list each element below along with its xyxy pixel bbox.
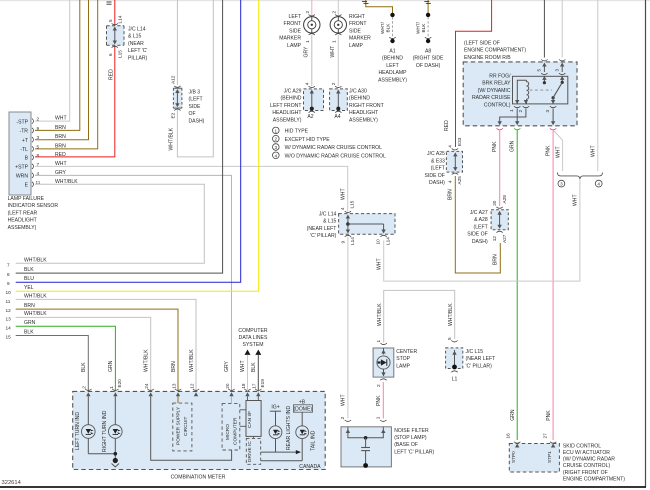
meter wire labels vertical	[81, 349, 257, 372]
svg-text:CANADA: CANADA	[299, 464, 321, 470]
svg-text:12: 12	[6, 308, 12, 313]
svg-text:-TL: -TL	[20, 147, 28, 153]
svg-text:'C' PILLAR): 'C' PILLAR)	[310, 233, 337, 239]
svg-text:B: B	[25, 156, 29, 162]
skid control title	[563, 443, 625, 482]
svg-text:322614: 322614	[2, 480, 22, 486]
svg-text:9: 9	[7, 281, 10, 286]
svg-text:WHT/BLK: WHT/BLK	[143, 349, 149, 372]
svg-text:(BEHIND: (BEHIND	[382, 56, 403, 62]
wire WHT/BLK pin11 E to row7	[16, 184, 205, 263]
svg-text:L14: L14	[350, 237, 355, 245]
J/B 3 title	[189, 90, 205, 125]
junction block J/B 3	[171, 75, 182, 118]
svg-text:A25: A25	[457, 176, 462, 185]
node A1	[380, 13, 396, 44]
svg-text:PNK: PNK	[492, 141, 498, 152]
wire BRN stub A8	[427, 0, 429, 13]
wire BLK into relay contact 1	[543, 0, 545, 58]
svg-text:WHT/BLK: WHT/BLK	[169, 127, 175, 150]
row 14 GRN	[6, 320, 116, 391]
svg-text:ECU W/ ACTUATOR: ECU W/ ACTUATOR	[563, 450, 610, 456]
relay coil	[527, 80, 529, 100]
svg-text:J/C L15: J/C L15	[466, 349, 484, 355]
row 15 BLK	[6, 329, 89, 391]
J/C L15 title	[466, 349, 496, 369]
wire relay coil pin2 jog	[500, 109, 526, 124]
svg-text:GRN: GRN	[510, 140, 516, 152]
svg-text:A2: A2	[307, 114, 313, 120]
svg-text:J/C A29: J/C A29	[284, 89, 302, 95]
wire RED top right	[456, 0, 492, 147]
svg-text:7: 7	[7, 263, 10, 268]
J/C A29 title	[270, 89, 302, 124]
wire PNK to left marker lamp	[311, 0, 313, 17]
svg-text:(LEFT REAR: (LEFT REAR	[8, 210, 38, 216]
svg-text:4: 4	[275, 153, 278, 158]
svg-text:(DOME): (DOME)	[293, 407, 312, 413]
svg-text:GRN: GRN	[24, 320, 36, 326]
svg-text:4: 4	[340, 207, 345, 210]
svg-text:4: 4	[448, 180, 453, 183]
left front side marker lamp	[279, 11, 320, 49]
wire WHT to right marker lamp	[337, 0, 339, 17]
svg-text:1: 1	[331, 40, 336, 43]
wire BRN pin9 -TR	[35, 0, 80, 130]
row 9 BLU	[7, 0, 241, 286]
wire WHT pin2 -STP	[35, 0, 70, 121]
svg-text:A27: A27	[502, 234, 507, 243]
svg-text:WHT/BLK: WHT/BLK	[24, 258, 47, 264]
wire GRY pin4 WRN	[35, 175, 232, 391]
svg-text:& A28: & A28	[474, 217, 488, 223]
svg-text:FRONT: FRONT	[283, 21, 301, 27]
svg-text:BLK: BLK	[24, 267, 34, 273]
svg-text:20: 20	[225, 383, 230, 389]
svg-text:YEL: YEL	[24, 285, 34, 291]
svg-text:LEFT: LEFT	[289, 14, 301, 20]
svg-text:+B: +B	[299, 399, 306, 405]
svg-text:-TR: -TR	[20, 129, 29, 135]
junction connector J/C A27 A28	[491, 195, 508, 243]
svg-text:ENGINE ROOM R/B: ENGINE ROOM R/B	[464, 55, 511, 61]
svg-text:17: 17	[252, 383, 257, 389]
svg-text:E: E	[25, 183, 29, 189]
micro computer box	[222, 396, 240, 450]
svg-text:2: 2	[275, 137, 278, 142]
svg-text:27: 27	[543, 433, 548, 439]
svg-text:PNK: PNK	[546, 145, 552, 156]
svg-text:WHT/BLK: WHT/BLK	[448, 303, 454, 326]
svg-text:MARKER: MARKER	[279, 36, 301, 42]
svg-text:WHT: WHT	[590, 145, 596, 157]
wire WHT/BLK from top through J/B 3	[176, 0, 178, 85]
svg-text:LAMP: LAMP	[349, 43, 363, 49]
svg-text:3: 3	[545, 110, 550, 113]
svg-text:E33: E33	[457, 137, 462, 146]
wire GRY lamp to J/C A29	[311, 35, 313, 86]
svg-text:2: 2	[331, 82, 336, 85]
RR FOG/BRK relay title	[472, 74, 511, 109]
note circle 4	[595, 180, 602, 187]
svg-text:BRK RELAY: BRK RELAY	[482, 81, 511, 87]
noise filter box	[340, 416, 391, 468]
svg-text:RED: RED	[109, 69, 115, 80]
svg-text:BRN: BRN	[448, 189, 454, 200]
svg-text:4: 4	[597, 182, 600, 187]
svg-text:W/ DYNAMIC RADAR CRUISE CONTRO: W/ DYNAMIC RADAR CRUISE CONTROL	[285, 145, 383, 151]
svg-text:J/C L14: J/C L14	[319, 212, 337, 218]
svg-text:& L15: & L15	[128, 34, 141, 40]
svg-text:(LEFT SIDE OF: (LEFT SIDE OF	[464, 41, 500, 47]
svg-text:RIGHT: RIGHT	[349, 14, 365, 20]
svg-text:WHT: WHT	[572, 194, 578, 206]
svg-text:CAN I/F: CAN I/F	[247, 411, 253, 428]
svg-text:J/C A25: J/C A25	[427, 151, 445, 157]
power supply circuit box	[173, 396, 192, 451]
svg-text:CONTROL): CONTROL)	[484, 102, 511, 108]
svg-text:WHT/BLK: WHT/BLK	[377, 303, 383, 326]
wire WHT into relay contact 2	[561, 0, 563, 58]
svg-text:CRUISE CONTROL): CRUISE CONTROL)	[563, 463, 611, 469]
junction connector J/C L15	[446, 337, 463, 383]
tail indicator	[261, 399, 321, 470]
wire PNK stop lamp to noise filter	[382, 382, 384, 419]
sensor pin numbers	[36, 117, 41, 185]
page bottom border	[0, 486, 646, 488]
relay RR FOG/BRK body	[513, 76, 568, 104]
svg-text:3: 3	[275, 145, 278, 150]
svg-text:10: 10	[6, 290, 12, 295]
svg-text:BLK: BLK	[385, 23, 390, 33]
svg-text:J/B 3: J/B 3	[189, 90, 201, 96]
row 8 BLK	[7, 0, 223, 277]
svg-text:E2: E2	[171, 112, 176, 118]
meter pin numbers	[82, 379, 265, 389]
svg-text:HEADLIGHT: HEADLIGHT	[349, 110, 378, 116]
svg-text:BRN: BRN	[24, 303, 35, 309]
svg-text:LEFT 'C': LEFT 'C'	[128, 48, 147, 54]
relay contacts	[543, 76, 545, 82]
svg-text:1: 1	[275, 128, 278, 133]
svg-text:(BEHIND: (BEHIND	[349, 96, 370, 102]
svg-text:RR FOG/: RR FOG/	[489, 74, 511, 80]
svg-text:13: 13	[6, 316, 12, 321]
J/C A30 title	[349, 89, 384, 124]
note circle 3	[558, 180, 565, 187]
svg-text:RED: RED	[444, 120, 450, 131]
svg-text:WHT: WHT	[330, 46, 336, 58]
relay pins at R/B top edge	[537, 60, 566, 80]
svg-text:WHT/: WHT/	[380, 21, 385, 34]
svg-text:LEFT 'C' PILLAR): LEFT 'C' PILLAR)	[394, 449, 434, 455]
svg-text:24: 24	[144, 383, 149, 389]
svg-text:BRN: BRN	[171, 361, 177, 372]
svg-text:REAR LIGHTS IND: REAR LIGHTS IND	[286, 406, 292, 450]
wire BRN pin3 +T	[35, 0, 89, 140]
right turn indicator	[102, 396, 122, 458]
svg-text:RADAR CRUISE: RADAR CRUISE	[472, 95, 511, 101]
svg-text:1: 1	[109, 386, 114, 389]
svg-text:L15: L15	[118, 50, 123, 58]
svg-text:ASSEMBLY): ASSEMBLY)	[273, 117, 302, 123]
svg-text:PNK: PNK	[546, 410, 552, 421]
row 13 WHT/BLK	[6, 311, 151, 391]
svg-text:(BEHIND: (BEHIND	[281, 96, 302, 102]
ground inside meter	[112, 458, 120, 467]
wire WHT lamp to J/C A30	[337, 35, 339, 86]
svg-text:BRN: BRN	[493, 254, 499, 265]
svg-text:WHT/BLK: WHT/BLK	[24, 294, 47, 300]
svg-text:J/C L14: J/C L14	[128, 27, 146, 33]
svg-text:WHT: WHT	[377, 258, 383, 270]
svg-text:BLK: BLK	[24, 329, 34, 335]
svg-text:CIRCUIT: CIRCUIT	[183, 416, 189, 436]
wire WHT JC L14 to noise filter	[347, 237, 349, 419]
svg-text:5: 5	[447, 337, 452, 340]
svg-text:(BASE OF: (BASE OF	[394, 442, 418, 448]
svg-text:WHT: WHT	[240, 360, 246, 372]
svg-text:WHT: WHT	[341, 188, 347, 200]
svg-text:SIDE: SIDE	[349, 28, 361, 34]
combination meter box	[73, 391, 326, 480]
svg-text:2: 2	[340, 416, 345, 419]
svg-text:BLU: BLU	[24, 276, 34, 282]
svg-text:(NEAR LEFT: (NEAR LEFT	[307, 226, 337, 232]
svg-text:A28: A28	[502, 195, 507, 204]
svg-text:& L15: & L15	[323, 219, 336, 225]
svg-text:OF DASH): OF DASH)	[416, 63, 441, 69]
svg-text:COMBINATION METER: COMBINATION METER	[171, 474, 226, 480]
A8 title	[413, 49, 444, 69]
svg-text:1: 1	[305, 40, 310, 43]
svg-text:WHT/BLK: WHT/BLK	[24, 311, 47, 317]
node A8	[415, 13, 431, 44]
row 12 BRN	[6, 303, 179, 392]
svg-text:HID TYPE: HID TYPE	[285, 129, 309, 135]
svg-text:L1: L1	[452, 377, 458, 383]
J/C A25 E33 title	[425, 151, 446, 186]
svg-text:WRN: WRN	[16, 174, 28, 180]
svg-text:5: 5	[108, 19, 113, 22]
svg-text:DRIVE IC: DRIVE IC	[247, 441, 253, 462]
row 11 WHT/BLK	[6, 294, 197, 392]
svg-text:4: 4	[448, 145, 453, 148]
svg-text:A4: A4	[334, 114, 340, 120]
svg-text:HEADLAMP: HEADLAMP	[378, 70, 407, 76]
wire BRN pin5 -TL	[35, 0, 98, 149]
svg-text:WHT/BLK: WHT/BLK	[189, 349, 195, 372]
svg-text:DASH): DASH)	[429, 180, 445, 186]
svg-text:18: 18	[241, 383, 246, 389]
wire WHT merged to J/C L14 L15	[384, 179, 580, 281]
rear lights indicator	[261, 404, 301, 454]
svg-text:WHT: WHT	[340, 394, 346, 406]
svg-text:LEFT FRONT: LEFT FRONT	[270, 103, 301, 109]
CAN I/F box	[240, 396, 261, 436]
svg-text:(LEFT: (LEFT	[189, 97, 203, 103]
svg-text:LEFT TURN IND: LEFT TURN IND	[75, 412, 81, 450]
wire relay common pin3	[552, 109, 554, 124]
svg-text:W/O DYNAMIC RADAR CRUISE CONTR: W/O DYNAMIC RADAR CRUISE CONTROL	[285, 154, 386, 160]
svg-text:GRY: GRY	[224, 360, 230, 372]
svg-text:(NEAR LEFT: (NEAR LEFT	[466, 356, 496, 362]
svg-text:SKID CONTROL: SKID CONTROL	[563, 443, 601, 449]
wire WHT/BLK to stop lamp and J/C L15	[384, 290, 455, 342]
svg-text:1: 1	[376, 416, 381, 419]
engine room R/B label	[464, 41, 526, 61]
brace merging WHT wires	[557, 173, 602, 180]
svg-text:DATA LINES: DATA LINES	[239, 335, 268, 341]
svg-text:(STOP LAMP): (STOP LAMP)	[394, 435, 427, 441]
junction connector J/C A30	[330, 82, 348, 120]
svg-text:FRONT: FRONT	[349, 21, 367, 27]
svg-text:RIGHT TURN IND: RIGHT TURN IND	[102, 410, 108, 452]
svg-text:2: 2	[376, 384, 381, 387]
skid control ECU box	[506, 433, 560, 472]
svg-text:DASH): DASH)	[189, 118, 205, 124]
relay blade	[552, 96, 555, 99]
svg-text:STP0: STP0	[511, 451, 516, 463]
svg-text:WHT: WHT	[555, 146, 561, 158]
svg-text:GRN: GRN	[108, 360, 114, 372]
row 7	[7, 258, 47, 268]
svg-text:IG+: IG+	[271, 404, 279, 410]
svg-text:BLK: BLK	[251, 362, 257, 372]
svg-text:16: 16	[506, 433, 511, 439]
wire PNK relay to J/C A28	[499, 130, 501, 207]
wire BRN A25 to A27	[455, 176, 500, 273]
relay pins at body bottom	[509, 100, 556, 113]
page right border	[645, 0, 647, 487]
svg-text:(RIGHT FRONT OF: (RIGHT FRONT OF	[563, 470, 608, 476]
center stop lamp	[373, 340, 394, 388]
svg-text:11: 11	[6, 299, 11, 304]
wire BRN stub A1	[366, 0, 393, 13]
svg-text:LAMP: LAMP	[396, 363, 410, 369]
svg-text:ENGINE COMPARTMENT): ENGINE COMPARTMENT)	[464, 48, 526, 54]
R/B bottom edge pin arrows	[497, 121, 557, 129]
right front side marker lamp	[330, 11, 371, 49]
svg-text:RIGHT FRONT: RIGHT FRONT	[349, 103, 384, 109]
svg-text:BLK: BLK	[81, 362, 87, 372]
svg-text:COMPUTER: COMPUTER	[232, 417, 238, 445]
svg-text:14: 14	[6, 325, 12, 330]
svg-text:SIDE OF: SIDE OF	[425, 173, 445, 179]
svg-text:MARKER: MARKER	[349, 36, 371, 42]
junction connector J/C A25 E33	[446, 137, 462, 184]
svg-text:(RIGHT SIDE: (RIGHT SIDE	[413, 56, 444, 62]
wire RED pin8 B	[35, 0, 115, 157]
svg-text:GRN: GRN	[510, 409, 516, 421]
junction connector J/C L14 L15 upper	[107, 15, 125, 58]
engine room R/B dashed box	[463, 62, 577, 126]
legend notes	[273, 127, 387, 159]
computer data lines system	[238, 328, 268, 392]
svg-text:9: 9	[341, 241, 346, 244]
svg-text:-STP: -STP	[16, 119, 28, 125]
svg-text:(W/ DYNAMIC: (W/ DYNAMIC	[478, 88, 511, 94]
svg-text:5: 5	[537, 69, 542, 72]
svg-text:BLK: BLK	[421, 23, 426, 33]
svg-text:2: 2	[518, 110, 523, 113]
lamp failure indicator sensor box	[9, 112, 31, 195]
svg-text:HEADLIGHT: HEADLIGHT	[272, 110, 301, 116]
svg-text:E20: E20	[117, 379, 122, 388]
faint top page edge	[0, 0, 650, 2]
wire pin24 to micro computer	[151, 396, 232, 460]
wire GRN relay to skid control STP0	[516, 130, 518, 441]
svg-text:STOP: STOP	[396, 356, 410, 362]
svg-text:'C' PILLAR): 'C' PILLAR)	[466, 363, 493, 369]
svg-text:A8: A8	[425, 49, 431, 55]
svg-text:13: 13	[171, 383, 176, 389]
meter pin arcs and arrows	[85, 389, 261, 396]
svg-text:ENGINE COMPARTMENT): ENGINE COMPARTMENT)	[563, 476, 625, 482]
svg-text:1: 1	[376, 340, 381, 343]
svg-text:4: 4	[305, 82, 310, 85]
drive IC box	[246, 436, 260, 464]
svg-text:J/C A30: J/C A30	[349, 89, 367, 95]
center stop lamp title	[396, 349, 417, 369]
lamp failure sensor title	[8, 196, 59, 231]
svg-text:PNK: PNK	[376, 395, 382, 406]
svg-text:COMPUTER: COMPUTER	[238, 328, 267, 334]
svg-text:2: 2	[305, 11, 310, 14]
svg-text:WHT/: WHT/	[415, 21, 420, 34]
svg-text:ASSEMBLY): ASSEMBLY)	[349, 117, 378, 123]
wire PNK relay to skid control STP1	[552, 130, 554, 441]
sensor wire color labels	[55, 116, 78, 185]
svg-text:2: 2	[331, 11, 336, 14]
wire WHT branch 3 from relay pin	[554, 131, 563, 172]
svg-text:PILLAR): PILLAR)	[128, 55, 148, 61]
relay linkage dashed	[530, 89, 553, 91]
svg-text:ASSEMBLY): ASSEMBLY)	[8, 225, 37, 231]
svg-text:TAIL IND: TAIL IND	[311, 430, 317, 451]
A1 title	[378, 49, 407, 84]
svg-text:SIDE OF: SIDE OF	[467, 232, 487, 238]
svg-text:(NEAR: (NEAR	[128, 41, 144, 47]
red top tick	[107, 2, 112, 4]
svg-text:(W/ DYNAMIC RADAR: (W/ DYNAMIC RADAR	[563, 457, 615, 463]
svg-text:20: 20	[492, 200, 497, 206]
svg-text:L14: L14	[118, 15, 123, 23]
svg-text:INDICATOR SENSOR: INDICATOR SENSOR	[8, 203, 59, 209]
svg-text:EXCEPT HID TYPE: EXCEPT HID TYPE	[285, 137, 331, 143]
svg-text:15: 15	[6, 335, 12, 340]
svg-text:DASH): DASH)	[472, 239, 488, 245]
svg-text:SIDE: SIDE	[189, 104, 201, 110]
svg-text:L15: L15	[350, 200, 355, 208]
svg-text:A1: A1	[389, 49, 395, 55]
svg-text:ASSEMBLY): ASSEMBLY)	[378, 77, 407, 83]
svg-text:3: 3	[560, 182, 563, 187]
J/C L14 L15 upper title	[128, 27, 148, 62]
svg-text:LAMP FAILURE: LAMP FAILURE	[8, 196, 45, 202]
row 10 YEL	[6, 0, 259, 295]
svg-text:2: 2	[82, 386, 87, 389]
svg-text:OF: OF	[189, 111, 196, 117]
svg-text:LEFT: LEFT	[386, 63, 398, 69]
svg-text:+T: +T	[22, 138, 28, 144]
svg-text:MICRO: MICRO	[225, 424, 231, 440]
svg-text:A12: A12	[171, 75, 176, 84]
svg-text:LAMP: LAMP	[287, 43, 301, 49]
svg-text:+STP: +STP	[15, 165, 28, 171]
svg-text:HEADLIGHT: HEADLIGHT	[8, 218, 37, 224]
svg-text:12: 12	[492, 236, 497, 242]
